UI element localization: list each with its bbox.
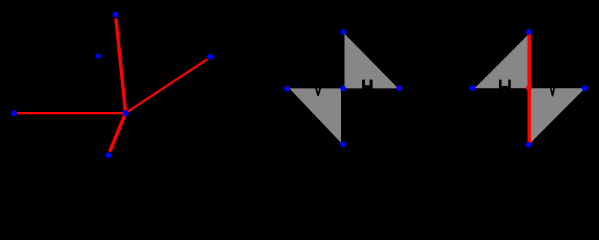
node: right figure top point <box>526 29 532 35</box>
node: right figure center point (red) <box>526 85 532 91</box>
node: left star upper-right point <box>207 54 213 60</box>
node: middle figure left point <box>284 86 290 92</box>
node: left star bottom point <box>105 152 111 158</box>
wire: left star thin segment center to upper-right point <box>126 59 208 113</box>
node: middle figure right point <box>396 85 402 91</box>
wire: left star thick segment center to bottom point <box>110 113 126 152</box>
node: middle figure top point <box>340 29 346 35</box>
node: left star left point <box>11 110 17 116</box>
label H middle figure (drawn as bars) <box>362 80 373 90</box>
node: right figure bottom point <box>526 142 532 148</box>
wire: left star thin segment center to left point <box>17 112 126 114</box>
label v right figure (drawn as path) <box>550 88 555 96</box>
node: left star center point <box>123 110 129 116</box>
label v middle figure (drawn as path) <box>315 88 321 96</box>
node: middle figure bottom point <box>340 141 346 147</box>
right figure upper triangle <box>475 34 529 88</box>
node: left star top point <box>113 12 119 18</box>
label H right figure (drawn as bars) <box>499 80 511 90</box>
middle figure lower triangle <box>289 88 341 142</box>
wire: right figure red vertical line <box>527 32 531 145</box>
middle figure upper triangle <box>345 34 399 89</box>
node: middle figure center point <box>340 86 346 92</box>
node: left star floating point <box>96 53 101 58</box>
node: right figure left point <box>470 85 476 91</box>
node: right figure right point <box>582 85 588 91</box>
right figure lower triangle <box>530 88 585 143</box>
wire: left star thick segment top point to center <box>116 19 126 114</box>
